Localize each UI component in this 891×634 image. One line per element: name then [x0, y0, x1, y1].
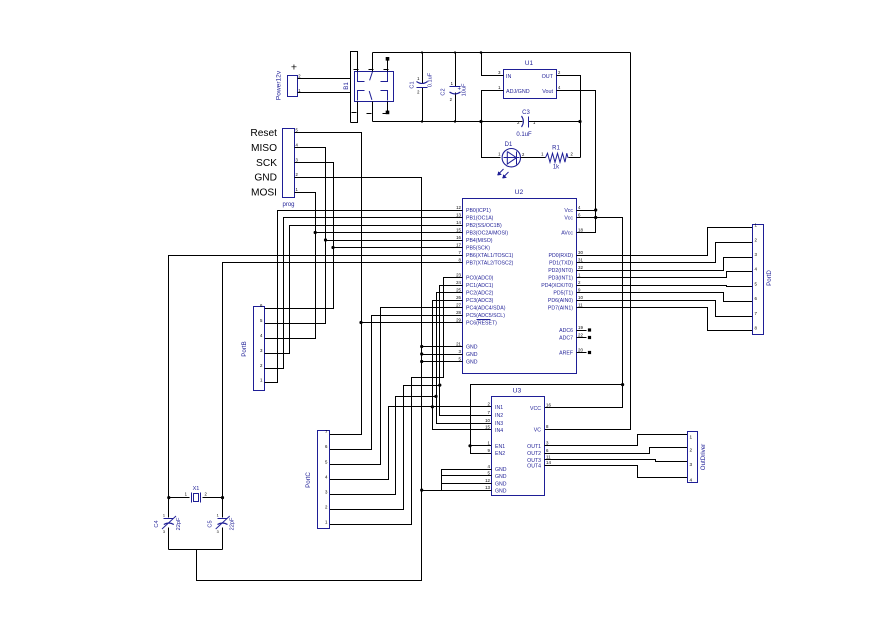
svg-text:+: + [291, 62, 297, 74]
wire Power12v pin2 to B1 [298, 78, 351, 80]
junction gnd U2 pin21 [420, 345, 423, 348]
wire +12V top rail [373, 52, 631, 54]
svg-text:21: 21 [456, 341, 461, 346]
svg-text:IN2: IN2 [495, 413, 503, 419]
svg-text:3: 3 [163, 530, 165, 534]
wire PD7 to PortD pin8 [587, 308, 753, 331]
svg-text:GND: GND [466, 360, 478, 366]
U2 pin 18 AVcc [577, 232, 587, 234]
svg-text:1: 1 [690, 435, 693, 440]
junction PC1/IN2 [438, 384, 441, 387]
wire PD1 to PortD pin2 [587, 243, 753, 263]
svg-text:GND: GND [495, 488, 507, 494]
B1 NC pin3 bottom [387, 102, 389, 112]
svg-text:Vcc: Vcc [564, 208, 573, 214]
svg-text:3: 3 [690, 462, 693, 467]
wire MISO: prog pin4 to PB4 net [265, 148, 326, 324]
svg-text:EN1: EN1 [495, 444, 505, 450]
svg-text:13: 13 [485, 485, 490, 490]
capacitor C1 0.1uF [422, 53, 424, 84]
svg-text:PC2(ADC2): PC2(ADC2) [466, 291, 494, 297]
U2 pin 2 PD4(XCK/T0) [577, 285, 587, 287]
svg-text:22: 22 [578, 332, 583, 337]
wire PB1 to PortB pin2 [265, 218, 453, 369]
svg-text:GND: GND [254, 173, 277, 184]
U2 pin 26 PC3(ADC3) [453, 300, 463, 302]
svg-text:PC5(ADC5/SCL): PC5(ADC5/SCL) [466, 313, 505, 319]
svg-text:PortB: PortB [241, 341, 248, 356]
svg-text:VC: VC [534, 428, 541, 434]
svg-text:U1: U1 [525, 60, 534, 67]
svg-text:IN: IN [506, 74, 511, 80]
svg-text:15: 15 [485, 424, 490, 429]
svg-text:14: 14 [546, 460, 551, 465]
U2 pin 19 ADC6 [577, 330, 587, 332]
wire SCK: prog pin3 to PB5 net [265, 163, 334, 309]
svg-text:12: 12 [485, 478, 490, 483]
wire PD2 to PortD pin3 [587, 258, 753, 271]
U2 pin 24 PC1(ADC1) [453, 285, 463, 287]
svg-text:PB1(OC1A): PB1(OC1A) [466, 216, 494, 222]
svg-text:PC3(ADC3): PC3(ADC3) [466, 298, 494, 304]
wire PB5 row to SCK net [334, 247, 453, 249]
svg-text:ADJ/GND: ADJ/GND [506, 89, 530, 95]
svg-text:SCK: SCK [256, 158, 277, 169]
svg-text:R1: R1 [552, 146, 560, 152]
U2 pin 13 PB1(OC1A) [453, 217, 463, 219]
svg-text:1k: 1k [553, 165, 560, 171]
svg-text:PD3(INT1): PD3(INT1) [548, 276, 573, 282]
wire PB7 to crystal XTAL2 [223, 263, 453, 518]
U2 pin 23 PC0(ADC0) [453, 277, 463, 279]
wire U1 IN from top rail [482, 53, 504, 76]
wire OUT4 to OutDriver pin4 [545, 466, 688, 478]
svg-text:MOSI: MOSI [251, 188, 277, 199]
svg-text:PB2(SS/OC1B): PB2(SS/OC1B) [466, 223, 502, 229]
svg-text:32: 32 [578, 265, 583, 270]
U2 pin 31 PD1(TXD) [577, 262, 587, 264]
wire U1 ADJ/GND down to rail and LED [482, 91, 504, 158]
svg-text:10: 10 [485, 418, 490, 423]
wire U2 GND3 [422, 354, 453, 356]
svg-text:PC0(ADC0): PC0(ADC0) [466, 276, 494, 282]
svg-text:16: 16 [546, 403, 551, 408]
U2 pin 3 GND [453, 354, 463, 356]
svg-text:PortC: PortC [305, 472, 312, 488]
svg-text:OUT2: OUT2 [527, 451, 541, 457]
svg-text:C4: C4 [154, 520, 160, 527]
capacitor C4 22pF [164, 518, 174, 520]
svg-text:PC4(ADC4/SDA): PC4(ADC4/SDA) [466, 306, 506, 312]
svg-text:U3: U3 [513, 388, 522, 395]
U2 pin 14 PB2(SS/OC1B) [453, 225, 463, 227]
wire OUT1 to OutDriver pin1 [545, 435, 688, 446]
svg-text:15: 15 [456, 227, 461, 232]
svg-text:C2: C2 [441, 88, 447, 95]
LED D1 emission arrows [498, 169, 504, 175]
wire EN1 stub [471, 445, 492, 447]
svg-text:26: 26 [456, 295, 461, 300]
svg-text:4: 4 [690, 478, 693, 483]
U2 ADC6 no-connect [588, 328, 591, 331]
svg-text:10uF: 10uF [462, 83, 468, 96]
wire PB4 row to MISO net [326, 240, 453, 242]
junction Vcc to EN net [621, 383, 624, 386]
svg-text:PortD: PortD [766, 270, 773, 286]
LED D1 [502, 149, 520, 167]
junction ADJ net [479, 120, 482, 123]
U2 pin 27 PC4(ADC4/SDA) [453, 307, 463, 309]
svg-text:10: 10 [578, 295, 583, 300]
svg-text:0.1uF: 0.1uF [428, 72, 434, 87]
svg-text:PD4(XCK/T0): PD4(XCK/T0) [541, 283, 573, 289]
wire bottom rail B1- to C3 [373, 121, 523, 123]
wire PD6 to PortD pin7 [587, 301, 753, 317]
U2 pin 7 PB6(XTAL1/TOSC1) [453, 255, 463, 257]
junction XTAL2 at C5 [221, 496, 224, 499]
svg-text:AVcc: AVcc [561, 231, 573, 237]
junction PC3/IN1 [431, 405, 434, 408]
wire U1 Vout down to U2 Vcc [557, 91, 596, 233]
crystal X1 [169, 497, 190, 499]
svg-text:PD5(T1): PD5(T1) [553, 291, 573, 297]
svg-text:18: 18 [578, 227, 583, 232]
U2 pin 9 PD5(T1) [577, 292, 587, 294]
svg-text:19: 19 [578, 325, 583, 330]
junction XTAL1 at C4 [167, 496, 170, 499]
svg-text:OutDriver: OutDriver [700, 444, 707, 470]
junction MISO at PB4 row [324, 238, 327, 241]
connector J Power12v [288, 76, 298, 97]
connector prog (ISP header) [283, 129, 295, 198]
svg-text:D1: D1 [505, 142, 513, 148]
U2 AREF no-connect [588, 351, 591, 354]
wire PD5 to PortD pin6 [587, 293, 753, 302]
wire U2 GND5 [422, 361, 453, 363]
svg-text:Vout: Vout [542, 89, 553, 95]
svg-text:GND: GND [495, 474, 507, 480]
svg-text:IN1: IN1 [495, 405, 503, 411]
svg-text:PB3(OC2A/MOSI): PB3(OC2A/MOSI) [466, 231, 508, 237]
junction MOSI at PB3 row [314, 231, 317, 234]
svg-text:OUT: OUT [542, 74, 554, 80]
svg-text:11: 11 [578, 302, 583, 307]
capacitor C2 10uF [455, 53, 457, 87]
wire Reset: prog pin5 to PC6 and PortC pin7 [295, 133, 362, 435]
U2 pin 29 PC6(RESET) [453, 322, 463, 324]
svg-text:Vcc: Vcc [564, 216, 573, 222]
wire U2 GND21 [422, 346, 453, 348]
B1 NC pin4 top [387, 61, 389, 72]
svg-text:PC6(RESET): PC6(RESET) [466, 321, 497, 327]
svg-text:EN2: EN2 [495, 451, 505, 457]
wire PD4 to PortD pin5 [587, 286, 753, 287]
svg-text:PD2(INT0): PD2(INT0) [548, 268, 573, 274]
wire Vcc pin4 to Vout net [587, 210, 596, 212]
wire Power12v pin1 to B1 [298, 92, 351, 94]
wire crystal bottom to gnd [169, 549, 223, 551]
svg-text:Power12v: Power12v [276, 70, 283, 100]
svg-text:+: + [458, 87, 462, 93]
svg-text:GND: GND [495, 481, 507, 487]
wire C3 to OUT net [529, 121, 581, 123]
wire OUT2 to OutDriver pin2 [545, 448, 688, 454]
svg-text:12: 12 [456, 205, 461, 210]
svg-text:X1: X1 [193, 486, 200, 492]
U2 pin 21 GND [453, 346, 463, 348]
wire B1 pin3 top to +rail [372, 53, 374, 72]
svg-text:PD7(AIN1): PD7(AIN1) [548, 306, 573, 312]
svg-text:24: 24 [456, 280, 461, 285]
U2 pin 28 PC5(ADC5/SCL) [453, 315, 463, 317]
wire PB6 to crystal XTAL1 [169, 256, 453, 518]
junction OUT net at C3 [578, 120, 581, 123]
wire OUT3 to OutDriver pin3 [545, 460, 688, 462]
connector PortD [753, 225, 764, 335]
U2 pin 15 PB3(OC2A/MOSI) [453, 232, 463, 234]
svg-text:28: 28 [456, 310, 461, 315]
junction PC2/IN3 [434, 395, 437, 398]
svg-text:PD6(AIN0): PD6(AIN0) [548, 298, 573, 304]
wire MOSI: prog pin1 to PB3 net [265, 193, 316, 339]
svg-text:IN4: IN4 [495, 428, 503, 434]
junction gnd U2 pin5 [420, 360, 423, 363]
regulator U1 [504, 70, 557, 99]
svg-text:prog: prog [282, 202, 294, 208]
svg-text:13: 13 [456, 212, 461, 217]
junction Vcc net [594, 216, 597, 219]
wire top rail right drop to U3 VC [545, 53, 631, 430]
U2 pin 25 PC2(ADC2) [453, 292, 463, 294]
svg-text:PD1(TXD): PD1(TXD) [549, 261, 573, 267]
U2 pin 16 PB4(MISO) [453, 240, 463, 242]
driver U3 L293D [492, 397, 545, 496]
connector OutDriver [688, 432, 698, 483]
wire B1 input hook (from Power12v) [351, 52, 358, 123]
svg-text:ADC6: ADC6 [559, 328, 573, 334]
U2 pin 20 AREF [577, 352, 587, 354]
svg-text:PB4(MISO): PB4(MISO) [466, 238, 493, 244]
svg-text:23: 23 [456, 272, 461, 277]
svg-text:Reset: Reset [250, 128, 277, 139]
wire B1 pin2 bottom to gnd rail [372, 102, 374, 122]
wire PB0 to PortB pin1 [265, 211, 453, 383]
wire U1 OUT to C3/R1 [557, 76, 581, 158]
wire U3 IN1 row [433, 406, 492, 408]
bridge rectifier B1 [355, 72, 394, 102]
wire PC0 net to PortC pin1 [330, 278, 453, 525]
svg-text:PB0(ICP1): PB0(ICP1) [466, 208, 491, 214]
resistor R1 1k [521, 157, 546, 159]
svg-text:B1: B1 [343, 82, 350, 90]
svg-text:14: 14 [456, 220, 461, 225]
svg-text:31: 31 [578, 257, 583, 262]
svg-text:GND: GND [466, 345, 478, 351]
svg-text:OUT1: OUT1 [527, 444, 541, 450]
U2 pin 1 PD3(INT1) [577, 277, 587, 279]
wire PC6 row to Reset net [362, 322, 453, 324]
svg-text:16: 16 [456, 235, 461, 240]
U2 pin 10 PD6(AIN0) [577, 300, 587, 302]
U2 pin 11 PD7(AIN1) [577, 307, 587, 309]
U2 PC6 RESET overline [477, 319, 491, 321]
junction gnd U3 bus [420, 489, 423, 492]
wire GND: prog pin2 gnd bus [197, 178, 422, 581]
svg-text:25: 25 [456, 287, 461, 292]
wire PB3 row to MOSI net [316, 232, 453, 234]
svg-text:22pF: 22pF [176, 517, 182, 530]
svg-text:IN3: IN3 [495, 421, 503, 427]
svg-text:PB5(SCK): PB5(SCK) [466, 246, 490, 252]
U2 pin 8 PB7(XTAL2/TOSC2) [453, 262, 463, 264]
wire Vcc pin6 over to U3 VCC [545, 218, 623, 408]
svg-text:VCC: VCC [530, 406, 541, 412]
svg-text:20: 20 [578, 347, 583, 352]
svg-text:29: 29 [456, 317, 461, 322]
U2 pin 22 ADC7 [577, 337, 587, 339]
wire PC3 net to PortC pin4 and U3 IN1/IN4 [433, 301, 492, 430]
svg-text:2: 2 [690, 447, 693, 452]
wire Vcc feed to U3 EN1/EN2 [471, 385, 623, 454]
wire PD3 to PortD pin4 [587, 272, 753, 278]
svg-text:GND: GND [495, 467, 507, 473]
wire PC2 net to PortC pin3 and U3 IN3 [330, 293, 453, 495]
U2 pin 4 Vcc [577, 210, 587, 212]
svg-text:OUT4: OUT4 [527, 464, 541, 470]
svg-text:PB6(XTAL1/TOSC1): PB6(XTAL1/TOSC1) [466, 253, 514, 259]
svg-text:GND: GND [466, 352, 478, 358]
wire PB2 to PortB pin3 [265, 226, 453, 354]
svg-text:0.1uF: 0.1uF [516, 132, 532, 138]
svg-text:11: 11 [546, 454, 551, 459]
connector PortB [254, 307, 265, 391]
svg-text:1: 1 [163, 514, 165, 518]
wire PC4 to PortC pin5 [330, 308, 453, 465]
junction C2 bottom [454, 120, 456, 122]
svg-text:MISO: MISO [251, 143, 277, 154]
junction C1 bottom [421, 120, 423, 122]
capacitor C5 22pF [218, 518, 228, 520]
svg-text:ADC7: ADC7 [559, 336, 573, 342]
U2 pin 12 PB0(ICP1) [453, 210, 463, 212]
U2 ADC7 no-connect [588, 336, 591, 339]
microcontroller U2 ATmega8 [463, 199, 577, 374]
svg-text:PB7(XTAL2/TOSC2): PB7(XTAL2/TOSC2) [466, 261, 514, 267]
svg-text:PC1(ADC1): PC1(ADC1) [466, 283, 494, 289]
U2 pin 30 PD0(RXD) [577, 255, 587, 257]
svg-text:C1: C1 [410, 81, 416, 88]
svg-text:22pF: 22pF [230, 517, 236, 530]
svg-text:PD0(RXD): PD0(RXD) [549, 253, 574, 259]
wire PC1 net to PortC pin2 and U3 IN2 [330, 286, 453, 510]
junction Reset at PC6 row [359, 321, 362, 324]
junction gnd U2 pin3 [420, 352, 423, 355]
svg-text:27: 27 [456, 302, 461, 307]
U2 pin 5 GND [453, 361, 463, 363]
U2 pin 32 PD2(INT0) [577, 270, 587, 272]
U2 pin 17 PB5(SCK) [453, 247, 463, 249]
svg-text:17: 17 [456, 242, 461, 247]
svg-text:C3: C3 [522, 110, 530, 116]
svg-text:AREF: AREF [559, 351, 573, 357]
connector PortC [318, 431, 330, 529]
junction SCK at PB5 row [331, 246, 334, 249]
svg-text:3: 3 [217, 530, 219, 534]
svg-text:C5: C5 [208, 520, 214, 527]
wire PC5 to PortC pin6 [330, 316, 453, 450]
wire U3 GND pins to gnd bus [442, 470, 492, 491]
capacitor C3 0.1uF [482, 121, 523, 123]
wire PD0 to PortD pin1 [587, 228, 753, 256]
junction EN1 [468, 444, 471, 447]
svg-text:U2: U2 [515, 189, 524, 196]
svg-text:30: 30 [578, 250, 583, 255]
U2 pin 6 Vcc [577, 217, 587, 219]
svg-text:1: 1 [217, 514, 219, 518]
